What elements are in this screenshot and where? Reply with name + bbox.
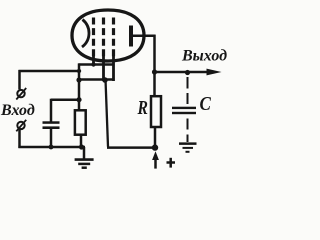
svg-text:R: R <box>137 96 148 118</box>
svg-text:Выход: Выход <box>181 48 227 65</box>
svg-text:C: C <box>200 93 212 116</box>
svg-text:Вход: Вход <box>0 102 35 119</box>
